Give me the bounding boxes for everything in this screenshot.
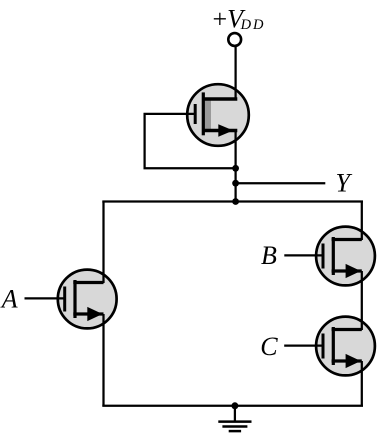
wire VDD terminal to load drain	[234, 47, 236, 99]
terminal VDD supply	[228, 33, 241, 46]
wire load gate feedback to output node	[145, 114, 235, 168]
wire left rail lower (A source to bottom rail)	[102, 314, 104, 406]
wire right rail lower (C source to bottom rail)	[361, 361, 363, 406]
ground	[218, 406, 251, 431]
junction dot gate feedback	[232, 165, 239, 172]
svg-text:Y: Y	[336, 168, 353, 197]
transistor B (NMOS driver)	[316, 227, 375, 286]
transistor Q-load (depletion-load NMOS)	[187, 84, 249, 146]
wire top rail	[102, 200, 363, 202]
transistor C (NMOS driver)	[316, 317, 375, 376]
junction dot Y branch	[232, 180, 239, 187]
wire right rail upper (top rail to B drain)	[361, 202, 363, 241]
transistor A (NMOS driver)	[58, 270, 117, 329]
wire output node to Y	[236, 182, 326, 184]
junction dot top rail	[232, 198, 239, 205]
wire A gate lead	[25, 297, 66, 299]
svg-text:+VDD: +VDD	[213, 4, 266, 33]
svg-text:B: B	[261, 241, 277, 270]
wire C gate lead	[284, 344, 323, 346]
svg-text:A: A	[0, 285, 18, 314]
junction dot ground	[231, 402, 238, 409]
wire right rail middle (B source to C drain)	[361, 271, 363, 330]
wire bottom rail	[102, 405, 363, 407]
svg-text:C: C	[260, 332, 278, 361]
wire B gate lead	[284, 254, 323, 256]
wire load source to output node	[234, 131, 236, 203]
wire left rail upper (top rail to A drain)	[102, 202, 104, 284]
